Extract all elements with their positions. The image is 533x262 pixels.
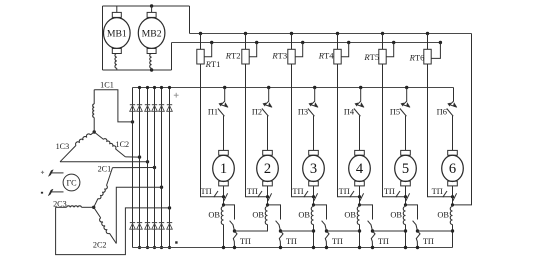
svg-text:RТ2: RТ2 — [225, 51, 241, 61]
svg-text:П1: П1 — [208, 108, 218, 117]
diode VD3 upper — [145, 104, 150, 106]
wire to field tee 2 — [267, 197, 269, 205]
node 2C3-col6 — [168, 206, 171, 209]
diode VD4 upper — [152, 104, 157, 106]
wire series connector 3 — [327, 230, 360, 232]
node bus2 tap 6 — [439, 41, 442, 44]
svg-text:ТП: ТП — [339, 187, 350, 196]
diode VD6 lower — [167, 222, 172, 224]
contact TP bottom 1 — [233, 231, 237, 248]
node branch 5 bottom — [404, 246, 407, 249]
node TP bottom 5 — [416, 246, 419, 249]
node bus2 tap 4 — [347, 41, 350, 44]
svg-text:П3: П3 — [298, 108, 308, 117]
node 1C3-col3 — [146, 160, 149, 163]
node bus1 branch 3 — [290, 32, 293, 35]
wire series connector 4 — [373, 230, 406, 232]
wire rectifier plus bus — [133, 87, 454, 89]
node bus2 tap 1 — [210, 41, 213, 44]
node bus2 tap 2 — [255, 41, 258, 44]
contact bypass 5 — [413, 221, 418, 231]
node below TP3 — [312, 195, 315, 198]
wire to field tee 4 — [359, 197, 361, 205]
wire 2C1 to column 4 — [113, 167, 155, 169]
contact TP3 under motor — [304, 191, 318, 201]
motor 6 — [442, 150, 464, 186]
contact TP2 under motor — [258, 191, 272, 201]
contactor P6 — [447, 88, 457, 117]
wire bottom right rise to bus2 — [171, 43, 173, 71]
node field tee 5 — [404, 203, 407, 206]
contactor P4 — [354, 88, 364, 117]
node connector at branch 6 — [451, 229, 454, 232]
wire RT5 down to TP contact — [383, 64, 406, 197]
svg-text:ГС: ГС — [66, 179, 77, 188]
generator GS — [63, 174, 80, 191]
node below TP2 — [266, 195, 269, 198]
wire bus2 from MB motors — [172, 42, 441, 44]
node column 4 bottom — [153, 246, 156, 249]
svg-text:ТП: ТП — [286, 237, 297, 246]
node 2C2-col5 — [160, 186, 163, 189]
contactor P2 — [262, 88, 272, 117]
polarity plus mark — [174, 93, 179, 98]
svg-text:ОВ: ОВ — [437, 210, 449, 219]
node connector at branch 4 — [358, 229, 361, 232]
polarity minus mark — [175, 241, 177, 243]
field winding OV2 — [265, 205, 267, 227]
svg-text:RТ6: RТ6 — [409, 52, 425, 62]
node column 3 top — [146, 86, 149, 89]
node below TP1 — [222, 195, 225, 198]
wire bus2 jumper to RT6 — [431, 43, 440, 59]
node field tee 2 — [266, 203, 269, 206]
node column 5 top — [160, 86, 163, 89]
inductor MB2 armature coil — [150, 54, 152, 69]
wire bus2 jumper to RT4 — [341, 43, 349, 57]
svg-text:RТ1: RТ1 — [205, 59, 221, 69]
wire OV6 to bottom bus — [452, 227, 454, 248]
contactor P3 — [308, 88, 318, 117]
svg-text:4: 4 — [356, 161, 364, 177]
node column 4 top — [153, 86, 156, 89]
svg-text:ТП: ТП — [378, 237, 389, 246]
node TP bottom 2 — [279, 246, 282, 249]
svg-text:ОВ: ОВ — [208, 210, 220, 219]
diode VD2 lower — [137, 222, 142, 224]
svg-text:П5: П5 — [390, 108, 400, 117]
wire OV1 to bottom bus — [223, 227, 225, 248]
contact bypass 1 — [230, 221, 235, 231]
wire bus2 jumper to RT5 — [386, 43, 394, 57]
diode VD5 lower — [159, 222, 164, 224]
wire OV4 to bottom bus — [359, 227, 361, 248]
contact TP bottom 3 — [325, 231, 329, 248]
svg-text:2С1: 2С1 — [98, 165, 112, 174]
field winding OV4 — [357, 205, 359, 227]
wire 1C2 to column 2 — [125, 156, 139, 158]
node column 6 bottom — [168, 246, 171, 249]
svg-text:ТП: ТП — [423, 237, 434, 246]
wire series connector 2 — [281, 230, 314, 232]
node bypass 2 — [279, 229, 282, 232]
diode VD5 upper — [159, 104, 164, 106]
node TP bottom 3 — [325, 246, 328, 249]
wire motor 1 bottom — [223, 186, 225, 197]
node column 6 top — [168, 86, 171, 89]
excitation terminal minus — [41, 189, 64, 196]
wire bus2 jumper to RT2 — [249, 43, 257, 57]
node 2C1-col4 — [153, 166, 156, 169]
node 1C2-col2 — [138, 155, 141, 158]
field winding OV6 — [450, 205, 452, 227]
svg-text:ТП: ТП — [432, 187, 443, 196]
contact TP1 under motor — [214, 191, 228, 201]
wire RT4 down to TP contact — [338, 64, 360, 197]
contact TP6 under motor — [443, 191, 457, 201]
contact bypass 3 — [322, 221, 327, 231]
svg-text:П2: П2 — [252, 108, 262, 117]
node bus1 branch 5 — [381, 32, 384, 35]
svg-text:ОВ: ОВ — [252, 210, 264, 219]
motor MB2 — [138, 6, 165, 54]
svg-text:RТ4: RТ4 — [318, 51, 334, 61]
svg-text:ОВ: ОВ — [390, 210, 402, 219]
node field tee 4 — [358, 203, 361, 206]
field winding OV3 — [311, 205, 313, 227]
svg-text:ТП: ТП — [292, 187, 303, 196]
contactor P1 — [218, 88, 228, 117]
wire RT2 down to TP contact — [246, 64, 268, 197]
diode VD3 lower — [145, 222, 150, 224]
svg-text:ТП: ТП — [201, 187, 212, 196]
svg-text:2: 2 — [264, 161, 271, 177]
wire P1 to motor 1 — [223, 116, 225, 151]
wire RT3 down to TP contact — [292, 64, 314, 197]
node star point 1C — [93, 130, 96, 133]
svg-text:5: 5 — [402, 161, 409, 177]
svg-text:1С3: 1С3 — [56, 142, 70, 151]
contact TP bottom 2 — [279, 231, 283, 248]
wire bypass 5 — [406, 205, 418, 220]
resistor RT3 — [288, 34, 295, 65]
svg-text:2С3: 2С3 — [53, 199, 67, 208]
svg-text:МВ1: МВ1 — [107, 28, 127, 39]
wire motor 2 bottom — [267, 186, 269, 197]
wire top right drop to bus1 — [189, 6, 191, 34]
wire to field tee 5 — [405, 197, 407, 205]
node plus bus contactor P5 — [405, 86, 408, 89]
inductor MB1 armature coil — [115, 54, 117, 69]
svg-text:6: 6 — [449, 161, 456, 177]
node bypass 4 — [371, 229, 374, 232]
svg-text:ТП: ТП — [332, 237, 343, 246]
node bus1 branch 6 — [426, 32, 429, 35]
node bus2 tap 3 — [301, 41, 304, 44]
resistor RT4 — [334, 34, 341, 65]
wire P2 to motor 2 — [267, 116, 269, 151]
resistor RT1 — [197, 34, 204, 65]
svg-text:3: 3 — [310, 161, 317, 177]
diode VD1 upper — [130, 104, 135, 106]
svg-text:МВ2: МВ2 — [142, 28, 162, 39]
wire rectifier column 6 — [169, 88, 171, 248]
node bus2 tap 5 — [392, 41, 395, 44]
wire bypass 2 — [268, 205, 281, 220]
node bypass 5 — [416, 229, 419, 232]
diode VD6 upper — [167, 104, 172, 106]
motor 5 — [395, 150, 417, 186]
node field tee 1 — [222, 203, 225, 206]
wire motor 6 bottom — [452, 186, 454, 197]
svg-text:ОВ: ОВ — [298, 210, 310, 219]
field winding OV1 — [221, 205, 223, 227]
svg-text:ТП: ТП — [384, 187, 395, 196]
wire series connector 5 — [418, 230, 453, 232]
field winding OV5 — [403, 205, 405, 227]
wire bypass 3 — [314, 205, 327, 220]
contact TP bottom 5 — [416, 231, 420, 248]
winding 1C3 — [56, 132, 95, 162]
wire motor 3 bottom — [313, 186, 315, 197]
node bus1 branch 2 — [244, 32, 247, 35]
node field tee 3 — [312, 203, 315, 206]
svg-text:1С2: 1С2 — [115, 140, 129, 149]
resistor RT2 — [242, 34, 249, 65]
wire P5 to motor 5 — [405, 116, 407, 151]
node MB2 top — [150, 4, 153, 7]
contact bypass 4 — [368, 221, 373, 231]
svg-text:П4: П4 — [344, 108, 355, 117]
wire bus1 from MB motors — [190, 33, 472, 35]
wire P3 to motor 3 — [313, 116, 315, 151]
node bypass 3 — [325, 229, 328, 232]
motor 3 — [303, 150, 325, 186]
node MB2 bottom — [150, 68, 153, 71]
node OV1 bottom — [222, 246, 225, 249]
node column 3 bottom — [146, 246, 149, 249]
wire rectifier column 5 — [161, 88, 163, 248]
wire OV5 to bottom bus — [405, 227, 407, 248]
diode VD2 upper — [137, 104, 142, 106]
winding 2C1 — [94, 165, 113, 208]
svg-text:1: 1 — [220, 161, 227, 177]
node plus bus contactor P4 — [359, 86, 362, 89]
wire minus bottom bus — [133, 247, 453, 249]
contact TP5 under motor — [396, 191, 410, 201]
winding 1C1 — [93, 81, 114, 132]
diode VD4 lower — [152, 222, 157, 224]
svg-text:П6: П6 — [437, 108, 447, 117]
resistor RT6 — [424, 34, 431, 65]
resistor RT5 — [379, 34, 386, 65]
wire to field tee 3 — [313, 197, 315, 205]
motor 4 — [349, 150, 371, 186]
wire rectifier column 1 — [132, 88, 134, 248]
svg-text:ТП: ТП — [240, 237, 251, 246]
wire RT6 down to TP contact — [428, 64, 453, 197]
wire rectifier column 2 — [139, 88, 141, 248]
node below TP4 — [358, 195, 361, 198]
node connector at branch 3 — [312, 229, 315, 232]
svg-text:ОВ: ОВ — [344, 210, 356, 219]
contact TP4 under motor — [350, 191, 364, 201]
winding 2C2 — [93, 207, 116, 249]
wire to field tee 1 — [223, 197, 225, 205]
svg-text:1С1: 1С1 — [100, 81, 114, 90]
wire MB loop top — [103, 5, 190, 7]
wire P4 to motor 4 — [359, 116, 361, 151]
node star point 2C — [92, 206, 95, 209]
contact TP bottom 4 — [371, 231, 375, 248]
diode VD1 lower — [130, 222, 135, 224]
wire series connector 1 — [235, 230, 268, 232]
winding 1C2 — [94, 132, 129, 157]
motor 1 — [213, 150, 235, 186]
wire rectifier column 4 — [154, 88, 156, 248]
wire 1C3 to column 3 — [60, 161, 148, 163]
wire bypass 1 — [224, 205, 235, 220]
node branch 3 bottom — [312, 246, 315, 249]
node TP bottom 4 — [371, 246, 374, 249]
node branch 4 bottom — [358, 246, 361, 249]
node plus bus contactor P1 — [223, 86, 226, 89]
wire bus2 jumper to RT3 — [295, 43, 303, 57]
svg-text:ТП: ТП — [247, 187, 258, 196]
node plus bus contactor P3 — [313, 86, 316, 89]
wire to field tee 6 — [452, 197, 454, 205]
wire motor 4 bottom — [359, 186, 361, 197]
node bypass 1 — [233, 229, 236, 232]
svg-text:2С2: 2С2 — [93, 240, 107, 249]
wire MB loop bottom — [103, 69, 172, 71]
wire bypass 4 — [360, 205, 373, 220]
wire OV3 to bottom bus — [313, 227, 315, 248]
excitation terminal plus — [41, 170, 64, 177]
contact bypass 2 — [276, 221, 281, 231]
node field tee 6 — [451, 203, 454, 206]
node bus1 branch 1 — [199, 32, 202, 35]
node column 2 bottom — [138, 246, 141, 249]
wire 1C1 to column 1 — [94, 90, 132, 122]
wire OV2 to connector — [235, 227, 268, 232]
node TP bottom 1 — [233, 246, 236, 249]
wire 2C3 loop to column 6 — [56, 207, 170, 254]
node plus bus contactor P2 — [267, 86, 270, 89]
wire 2C2 to column 5 — [116, 187, 161, 243]
wire rectifier column 3 — [147, 88, 149, 248]
node column 5 bottom — [160, 246, 163, 249]
node column 2 top — [138, 86, 141, 89]
svg-text:RТ5: RТ5 — [363, 52, 379, 62]
wire RT1 down to TP contact — [201, 64, 224, 197]
wire motor 5 bottom — [405, 186, 407, 197]
wire MB loop left — [102, 6, 104, 70]
contactor P5 — [400, 88, 410, 117]
winding 2C3 — [53, 199, 94, 208]
node below TP6 — [451, 195, 454, 198]
node below TP5 — [404, 195, 407, 198]
node 1C1-col1 — [131, 120, 134, 123]
svg-text:RТ3: RТ3 — [271, 51, 287, 61]
wire P6 to motor 6 — [452, 116, 454, 151]
motor MB1 — [104, 6, 131, 54]
node bus1 branch 4 — [336, 32, 339, 35]
node connector at branch 5 — [404, 229, 407, 232]
wire bus2 jumper to RT1 — [204, 43, 212, 57]
motor 2 — [257, 150, 279, 186]
wire right frame down — [453, 34, 472, 205]
